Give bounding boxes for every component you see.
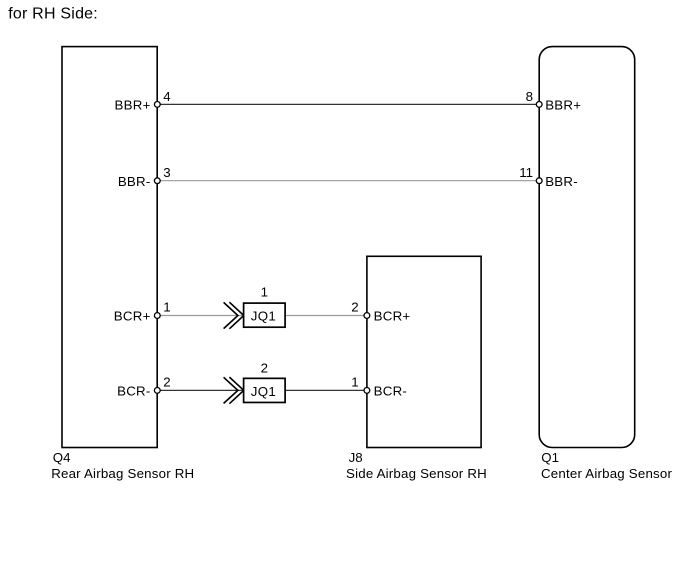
svg-text:BBR+: BBR+: [545, 98, 581, 113]
wire BBR+ net: Q4 pin 4 to Q1 pin 8: [158, 103, 539, 105]
junction connector JQ1 (BCR- row): [244, 378, 286, 402]
pin 2 of J8: [364, 313, 370, 319]
svg-text:11: 11: [519, 165, 533, 180]
connector J8 Side Airbag Sensor RH (middle box): [367, 256, 481, 447]
svg-text:Q4: Q4: [53, 450, 71, 465]
svg-text:1: 1: [163, 299, 170, 314]
splice chevron marks on BCR+ wire: [224, 302, 244, 329]
svg-text:for RH Side:: for RH Side:: [8, 6, 98, 23]
svg-text:1: 1: [351, 375, 358, 390]
svg-text:BCR-: BCR-: [117, 384, 151, 399]
pin 11 of Q1: [536, 178, 542, 184]
svg-text:8: 8: [526, 89, 533, 104]
svg-text:Center Airbag Sensor: Center Airbag Sensor: [541, 466, 673, 481]
wire BCR+ right segment: JQ1 to J8 pin 2 (gray): [285, 315, 366, 317]
wire BBR- net: Q4 pin 3 to Q1 pin 11 (shielded/gray): [158, 180, 539, 182]
svg-text:2: 2: [351, 299, 358, 314]
svg-text:BCR-: BCR-: [374, 384, 408, 399]
svg-text:3: 3: [163, 165, 170, 180]
svg-text:BBR-: BBR-: [118, 174, 151, 189]
wire BCR- right segment: JQ1 to J8 pin 1: [285, 389, 366, 391]
svg-text:BBR+: BBR+: [114, 98, 150, 113]
svg-text:2: 2: [261, 360, 268, 375]
pin 2 of Q4: [154, 388, 160, 394]
svg-text:BCR+: BCR+: [114, 308, 151, 323]
svg-text:2: 2: [163, 375, 170, 390]
wire BCR+ left segment: Q4 pin 1 to splice JQ1 (gray): [158, 315, 244, 317]
pin 3 of Q4: [154, 178, 160, 184]
splice chevron marks on BCR- wire: [224, 377, 244, 404]
svg-text:4: 4: [163, 89, 170, 104]
wire BCR- left segment: Q4 pin 2 to splice JQ1: [158, 389, 244, 391]
svg-text:Q1: Q1: [541, 450, 559, 465]
pin 1 of Q4: [154, 313, 160, 319]
svg-text:Side Airbag Sensor RH: Side Airbag Sensor RH: [346, 466, 487, 481]
svg-text:BBR-: BBR-: [545, 174, 578, 189]
svg-text:Rear Airbag Sensor RH: Rear Airbag Sensor RH: [51, 466, 194, 481]
svg-text:BCR+: BCR+: [374, 308, 411, 323]
pin 8 of Q1: [536, 102, 542, 108]
svg-text:JQ1: JQ1: [251, 309, 276, 324]
svg-text:JQ1: JQ1: [251, 384, 276, 399]
connector Q1 Center Airbag Sensor (right rounded box): [539, 47, 635, 448]
pin 4 of Q4 (circle terminal): [154, 102, 160, 108]
svg-text:1: 1: [261, 285, 268, 300]
svg-text:J8: J8: [349, 450, 363, 465]
pin 1 of J8: [364, 388, 370, 394]
junction connector JQ1 (BCR+ row): [244, 303, 286, 327]
connector Q4 Rear Airbag Sensor RH (left box): [62, 47, 157, 448]
